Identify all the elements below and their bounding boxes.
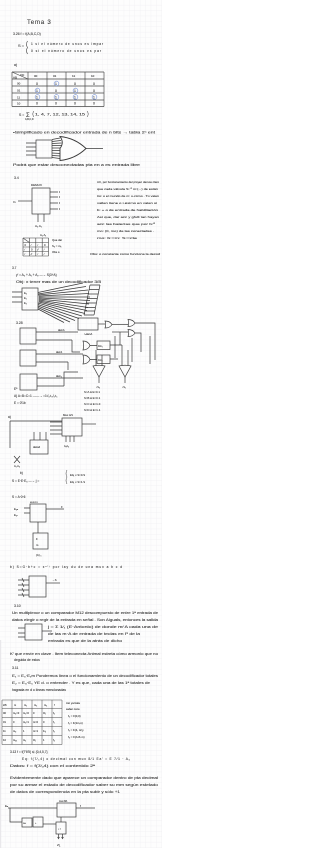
svg-text:E₂: E₂ xyxy=(24,301,27,305)
svg-text:0: 0 xyxy=(93,89,95,93)
svg-text:demA: demA xyxy=(58,329,65,332)
svg-text:3.4: 3.4 xyxy=(14,176,19,180)
svg-text:de las m·A de entrada de: de las m·A de entrada de teclas en P de … xyxy=(48,632,140,636)
svg-text:0: 0 xyxy=(93,82,95,86)
svg-text:Evidentemente dado que apar: Evidentemente dado que aparece un compar… xyxy=(10,776,158,780)
svg-text:vallen tiene o i-ésimo en: vallen tiene o i-ésimo en valen si xyxy=(97,201,157,205)
svg-text:E₁ = E₀·E₁m Pondremos líne: E₁ = E₀·E₁m Pondremos línea o el funcion… xyxy=(12,674,158,678)
svg-text:m₂: m₂ xyxy=(34,704,37,707)
svg-text:AB: AB xyxy=(13,76,17,80)
svg-text:Tema 3: Tema 3 xyxy=(27,19,52,26)
svg-text:A₁ A₀: A₁ A₀ xyxy=(14,464,20,468)
svg-text:↳demA: ↳demA xyxy=(84,333,93,336)
svg-text:↓S₁: ↓S₁ xyxy=(122,386,126,389)
svg-text:0: 0 xyxy=(93,102,95,106)
svg-text:0∕₁: 0∕₁ xyxy=(33,738,36,742)
svg-text:0: 0 xyxy=(36,82,38,86)
svg-text:f₁: f₁ xyxy=(53,720,55,724)
svg-text:saber cons: saber cons xyxy=(66,707,80,711)
svg-text:A₀ A₁: A₀ A₁ xyxy=(35,224,42,228)
svg-text:0 si el número de unos e: 0 si el número de unos es par xyxy=(31,49,102,53)
svg-text:11: 11 xyxy=(72,74,75,78)
svg-text:Eq: f(7∕₁4) o decimal con: Eq: f(7∕₁4) o decimal con mux 8∕1 Ea′ = … xyxy=(22,757,131,761)
svg-text:m=1: m=1 xyxy=(33,729,39,733)
svg-text:entrada es que de la atrá: entrada es que de la atrás de dicho xyxy=(48,639,122,643)
svg-text:↓↑: ↓↑ xyxy=(58,827,62,831)
svg-text:0: 0 xyxy=(74,82,76,86)
svg-text:y' = A₀ + A₁ + A₂ —→ S(3+A): y' = A₀ + A₁ + A₂ —→ S(3+A) xyxy=(16,273,57,277)
svg-text:Dm₂: Dm₂ xyxy=(98,359,103,362)
svg-text:0: 0 xyxy=(74,102,76,106)
svg-text:0: 0 xyxy=(55,89,57,93)
svg-text:10: 10 xyxy=(17,102,21,106)
svg-text:DEMUX: DEMUX xyxy=(31,183,42,187)
svg-text:2/6: 2/6 xyxy=(3,703,7,707)
svg-text:S=D ∆ E=1·1: S=D ∆ E=1·1 xyxy=(84,408,101,412)
svg-text:S=B ∆ E=0·1: S=B ∆ E=0·1 xyxy=(84,396,101,400)
svg-text:mo: (0, mo) de las conectadas: mo: (0, mo) de las conectadas . xyxy=(97,229,154,233)
svg-text:A₀ A₁: A₀ A₁ xyxy=(40,233,46,237)
svg-text:b) S=G·b+c = xⁿ′⁽ por lay: b) S=G·b+c = xⁿ′⁽ por lay du de una mux … xyxy=(10,565,122,569)
svg-text:1∕₀: 1∕₀ xyxy=(43,729,46,733)
svg-text:A₁A₀: A₁A₀ xyxy=(64,445,69,448)
svg-text:0: 0 xyxy=(55,102,57,106)
svg-text:11: 11 xyxy=(17,96,20,100)
svg-text:que cada válvula S: º m:(...): que cada válvula S: º m:(...) de están xyxy=(97,187,158,191)
svg-text:b: + o de entrada de habil: b: + o de entrada de habilitación xyxy=(97,208,158,212)
svg-text:por su armar el estado de: por su armar el estado de decodificador … xyxy=(10,783,158,787)
svg-text:acc las baterías que por: acc las baterías que por b:º xyxy=(97,222,156,226)
svg-text:→S: →S xyxy=(52,578,57,582)
svg-text:hagrada en d o líneas men: hagrada en d o líneas mencionadas xyxy=(12,688,66,692)
svg-text:Que dar: Que dar xyxy=(52,238,62,242)
svg-text:1, 4, 7, 12, 13, 14, 15: 1, 4, 7, 12, 13, 14, 15 xyxy=(35,113,85,117)
svg-text:m₁=0: m₁=0 xyxy=(23,711,30,715)
svg-text:Podrá que estar desconectad: Podrá que estar desconectadas pta en a e… xyxy=(13,163,140,167)
svg-text:Σ: Σ xyxy=(36,537,38,541)
svg-text:Dm₁: Dm₁ xyxy=(98,345,103,348)
svg-text:m₀: m₀ xyxy=(13,730,16,733)
svg-text:Un multiplexor o un compar: Un multiplexor o un comparador M12 desco… xyxy=(12,611,158,615)
svg-text:A) A=B=C=1 ——→ =1⁽/₀⊧₀/₁⊧₁: A) A=B=C=1 ——→ =1⁽/₀⊧₀/₁⊧₁ xyxy=(14,394,57,398)
svg-text:f₁ = Σ(1m,n): f₁ = Σ(1m,n) xyxy=(68,721,83,725)
svg-text:mux 8/1: mux 8/1 xyxy=(59,800,68,803)
svg-text:00: 00 xyxy=(34,74,38,78)
svg-text:3.10: 3.10 xyxy=(14,604,21,608)
svg-text:3.28: 3.28 xyxy=(16,321,23,325)
svg-text:•Simplificado en decodificad: •Simplificado en decodificador entrada d… xyxy=(13,131,155,135)
svg-text:Obs o: Obs o xyxy=(52,250,60,254)
svg-text:E0₁ x S=1·S: E0₁ x S=1·S xyxy=(70,480,85,484)
svg-text:a): a) xyxy=(14,63,17,67)
svg-text:de datos de correspondencia: de datos de correspondencia en la pta su… xyxy=(10,790,120,794)
svg-text:Así que, dar acc y ghdt t: Así que, dar acc y ghdt tan hayan xyxy=(97,215,159,219)
svg-text:00: 00 xyxy=(17,82,21,86)
svg-text:K′ que envíe en clave . Ite: K′ que envíe en clave . Item teleconecta… xyxy=(10,652,158,656)
svg-text:tro: o el mundo de m: s-cómo: tro: o el mundo de m: s-cómo . Tú valen xyxy=(97,194,159,198)
svg-text:m: m xyxy=(14,704,16,707)
svg-text:01: 01 xyxy=(17,89,21,93)
svg-text:3.13 f = f(7′6′5) ∈ {0,4,: 3.13 f = f(7′6′5) ∈ {0,4,5,7} xyxy=(10,750,48,754)
svg-text:In: In xyxy=(13,200,16,204)
svg-text:m₁=1: m₁=1 xyxy=(23,720,30,724)
svg-text:3.11: 3.11 xyxy=(12,666,18,670)
svg-text:Datos: f = f(7∕₀4) con el: Datos: f = f(7∕₀4) con el contenido 2ª xyxy=(10,764,96,768)
svg-text:MUX2/1: MUX2/1 xyxy=(30,502,39,504)
svg-text:3.26 f = f(A,B,C,D): 3.26 f = f(A,B,C,D) xyxy=(13,32,41,36)
svg-text:E₀ᵣ: E₀ᵣ xyxy=(14,513,18,517)
svg-text:(A) ₁: (A) ₁ xyxy=(36,553,42,557)
svg-text:Mux 4/1: Mux 4/1 xyxy=(63,413,73,417)
svg-text:m₃: m₃ xyxy=(44,704,47,707)
svg-text:S =: S = xyxy=(18,43,25,48)
svg-text:S =: S = xyxy=(19,113,24,117)
svg-text:f₀ = Σ(0,0): f₀ = Σ(0,0) xyxy=(68,714,81,718)
svg-text:E = 0′1b: E = 0′1b xyxy=(14,401,26,405)
svg-text:E₂ = E₀·E₁ YE d. o entende: E₂ = E₀·E₁ YE d. o entender . Y es que, … xyxy=(12,681,150,685)
svg-text:S = A·0·6: S = A·0·6 xyxy=(12,495,26,499)
svg-text:0∕₁: 0∕₁ xyxy=(43,711,46,715)
svg-text:0: 0 xyxy=(36,102,38,106)
svg-text:mo: b:=m: S:=cte: mo: b:=m: S:=cte xyxy=(97,236,138,240)
svg-text:m₂: m₂ xyxy=(23,739,26,742)
svg-text:Así ya bala: Así ya bala xyxy=(66,701,80,705)
svg-text:dem1: dem1 xyxy=(56,351,63,354)
svg-text:deguida de estos: deguida de estos xyxy=(14,658,40,662)
svg-text:Obj: x tener mas de un de: Obj: x tener mas de un decodificador 3/8 xyxy=(16,280,101,284)
svg-text:dem₂: dem₂ xyxy=(56,375,62,378)
svg-text:f₂ = Σ(4, m∕₁): f₂ = Σ(4, m∕₁) xyxy=(68,728,84,732)
svg-text:m₁: m₁ xyxy=(24,704,27,707)
svg-text:A,B,C,D: A,B,C,D xyxy=(25,118,34,121)
svg-text:3.7: 3.7 xyxy=(12,266,17,270)
svg-text:10: 10 xyxy=(91,74,95,78)
svg-text:F: F xyxy=(61,505,63,509)
svg-text:E0₁ x S=0·S: E0₁ x S=0·S xyxy=(70,473,85,477)
svg-text:1 si el número de unos e: 1 si el número de unos es impar xyxy=(31,42,104,46)
svg-text:f₀: f₀ xyxy=(53,711,55,715)
svg-text:S=C ∆ E=1·0: S=C ∆ E=1·0 xyxy=(84,402,101,406)
svg-text:datos elegir o regir de l: datos elegir o regir de la entrada en se… xyxy=(12,618,158,622)
svg-text:decod: decod xyxy=(33,445,41,449)
svg-text:m=0: m=0 xyxy=(33,720,39,724)
svg-text:S = E·E·E₀ —→ j =: S = E·E·E₀ —→ j = xyxy=(12,479,39,483)
svg-text:m₀=0: m₀=0 xyxy=(13,711,20,715)
svg-text:b): b) xyxy=(20,471,23,475)
svg-text:m₀₁: m₀₁ xyxy=(13,739,17,742)
svg-text:S₀ = m₁: S₀ = m₁ xyxy=(52,244,62,248)
svg-text:S=A ∆ E=0·1: S=A ∆ E=0·1 xyxy=(84,390,100,394)
svg-text:f₃ = Σ(A·B·m): f₃ = Σ(A·B·m) xyxy=(68,735,85,739)
svg-text:AC, por funcionamiento del pro: AC, por funcionamiento del proyec demos … xyxy=(97,180,159,184)
svg-text:f₃: f₃ xyxy=(53,738,55,742)
svg-text:E₀: E₀ xyxy=(24,291,27,295)
svg-text:01: 01 xyxy=(53,74,57,78)
svg-text:a): a) xyxy=(8,415,11,419)
svg-text:j = Σ 1∕₁ (E·Antonio) de do: j = Σ 1∕₁ (E·Antonio) de donde m∕ A cada… xyxy=(46,625,158,629)
svg-text:Obs: o constante como func: Obs: o constante como funciona la decod xyxy=(90,252,160,256)
svg-text:↓S₀: ↓S₀ xyxy=(96,386,100,389)
svg-text:f₂: f₂ xyxy=(53,729,55,733)
svg-text:E₁: E₁ xyxy=(24,296,27,300)
